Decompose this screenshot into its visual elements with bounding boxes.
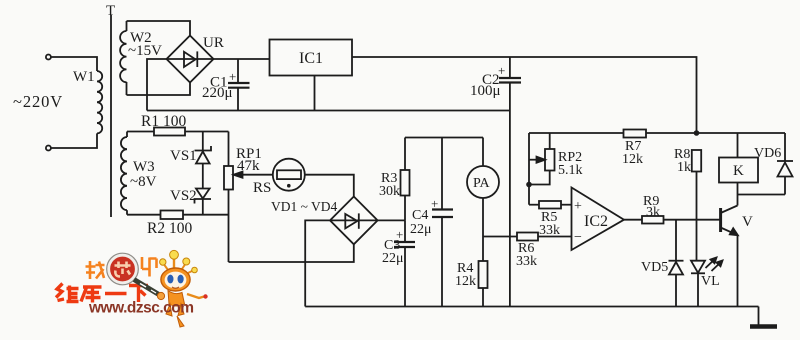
capacitor C1 bbox=[228, 59, 250, 111]
top rail of meter network bbox=[405, 137, 483, 139]
capacitor C4 bbox=[432, 138, 453, 307]
op-amp IC2 bbox=[572, 188, 625, 251]
svg-text:22μ: 22μ bbox=[410, 222, 432, 237]
bridge rectifier UR bbox=[167, 36, 214, 83]
svg-text:+: + bbox=[396, 227, 403, 242]
ground rail under IC1 bbox=[147, 110, 510, 112]
wire R2 to RP1 line bbox=[183, 214, 229, 216]
IC1 ground pin bbox=[314, 76, 316, 111]
resistor R4 bbox=[479, 261, 488, 307]
svg-text:33k: 33k bbox=[516, 254, 537, 269]
resistor R5 bbox=[529, 201, 572, 209]
wire W3 top bbox=[127, 131, 154, 133]
svg-text:VD5: VD5 bbox=[641, 260, 668, 275]
watermark char 片 bbox=[142, 257, 157, 277]
capacitor C2 bbox=[499, 57, 521, 83]
watermark char 下 bbox=[129, 286, 148, 303]
bottom rail bbox=[305, 306, 758, 308]
watermark char 维 bbox=[56, 284, 79, 303]
wire W2 top to bridge bbox=[127, 21, 191, 36]
svg-text:1k: 1k bbox=[677, 160, 691, 175]
watermark magnifier handle bbox=[134, 280, 165, 300]
svg-text:3k: 3k bbox=[646, 205, 660, 220]
zener VS1 bbox=[195, 132, 212, 189]
wire bridge left corner to ground rail bbox=[147, 59, 167, 111]
wire W2 bottom to bridge bbox=[127, 83, 191, 96]
potentiometer RP1 bbox=[224, 132, 273, 263]
resistor R2 bbox=[161, 211, 184, 220]
sensor RS bbox=[273, 159, 305, 191]
wire collector to VD6 bbox=[738, 194, 786, 196]
svg-text:30k: 30k bbox=[379, 184, 400, 199]
terminal bottom bbox=[46, 146, 51, 151]
watermark mascot bbox=[160, 250, 208, 327]
resistor R8 bbox=[692, 150, 701, 261]
svg-text:VD1 ~ VD4: VD1 ~ VD4 bbox=[271, 199, 338, 214]
watermark magnifier with 芯 bbox=[107, 253, 139, 285]
rail R7 to VD6 bbox=[646, 132, 785, 134]
svg-text:+: + bbox=[498, 63, 505, 78]
svg-text:12k: 12k bbox=[622, 152, 643, 167]
potentiometer RP2 bbox=[529, 133, 555, 185]
svg-text:+: + bbox=[229, 69, 236, 84]
svg-text:R1 100: R1 100 bbox=[141, 113, 186, 130]
svg-text:C4: C4 bbox=[412, 208, 428, 223]
svg-text:VS1: VS1 bbox=[170, 148, 197, 164]
resistor R1 bbox=[154, 128, 185, 136]
svg-text:−: − bbox=[574, 230, 582, 245]
svg-text:IC2: IC2 bbox=[584, 213, 608, 230]
supply rail to comparator bbox=[529, 132, 624, 134]
svg-text:~15V: ~15V bbox=[128, 43, 162, 59]
meter PA bbox=[467, 138, 499, 262]
ground bus from C2 down to bottom rail bbox=[509, 83, 511, 307]
svg-text:12k: 12k bbox=[455, 274, 476, 289]
svg-text:R2 100: R2 100 bbox=[147, 220, 192, 237]
svg-text:RS: RS bbox=[253, 180, 271, 196]
svg-text:47k: 47k bbox=[237, 158, 260, 174]
wire VD bridge bottom to RP1 bottom bbox=[229, 244, 354, 262]
resistor R6 and wire to inverting input bbox=[483, 233, 572, 241]
diode VD6 bbox=[777, 133, 793, 195]
zener VS2 bbox=[195, 189, 212, 215]
svg-text:VS2: VS2 bbox=[170, 188, 197, 204]
svg-text:22μ: 22μ bbox=[382, 251, 404, 266]
svg-text:+: + bbox=[431, 196, 438, 211]
V+ rail from IC1 output bbox=[352, 57, 697, 133]
resistor R7 bbox=[624, 130, 647, 138]
node at R7/R8 junction bbox=[694, 130, 700, 136]
capacitor C3 bbox=[394, 220, 415, 306]
svg-text:W3: W3 bbox=[133, 159, 155, 175]
svg-text:100μ: 100μ bbox=[470, 83, 501, 99]
svg-text:33k: 33k bbox=[539, 223, 560, 238]
winding W1 (primary) bbox=[51, 57, 102, 148]
svg-text:UR: UR bbox=[203, 35, 224, 51]
svg-text:~220V: ~220V bbox=[13, 92, 63, 111]
transformer T core bbox=[110, 15, 112, 217]
bridge VD1~VD4 bbox=[330, 197, 378, 245]
wire R1 to RP1 line bbox=[185, 131, 229, 133]
winding W3 (secondary ~8V) bbox=[121, 132, 127, 215]
wire bridge right corner to IC1 bbox=[214, 58, 270, 60]
svg-text:IC1: IC1 bbox=[299, 50, 323, 67]
watermark char 一 bbox=[105, 292, 127, 296]
diode VD5 bbox=[669, 220, 684, 307]
svg-text:V: V bbox=[742, 214, 753, 230]
wire VD bridge right to R3/C3 node bbox=[378, 219, 405, 221]
svg-text:VD6: VD6 bbox=[754, 146, 781, 161]
ground bbox=[750, 307, 777, 327]
svg-text:~8V: ~8V bbox=[130, 174, 157, 190]
terminal top bbox=[46, 55, 51, 60]
watermark dzsc logo bbox=[56, 250, 208, 327]
svg-text:www.dzsc.com: www.dzsc.com bbox=[88, 300, 194, 317]
svg-text:W1: W1 bbox=[73, 69, 95, 85]
svg-text:T: T bbox=[106, 3, 115, 19]
svg-text:K: K bbox=[733, 163, 744, 179]
relay K bbox=[719, 133, 758, 195]
resistor R3 bbox=[401, 138, 410, 221]
svg-text:VL: VL bbox=[701, 274, 720, 289]
svg-text:PA: PA bbox=[473, 176, 491, 191]
svg-text:5.1k: 5.1k bbox=[558, 163, 583, 178]
IC1 box bbox=[270, 40, 353, 76]
wire RS to VD bridge bbox=[305, 175, 354, 197]
resistor R9 and output wire bbox=[624, 216, 720, 224]
watermark char 找 bbox=[86, 261, 105, 279]
watermark char 库 bbox=[81, 287, 102, 303]
wire W3 bottom bbox=[127, 214, 161, 216]
wire VD bridge left to bottom rail bbox=[305, 220, 330, 306]
svg-text:+: + bbox=[574, 199, 582, 214]
LED VL bbox=[691, 258, 723, 307]
RP2 branch line bbox=[526, 133, 532, 205]
svg-text:220μ: 220μ bbox=[202, 85, 233, 101]
transistor V bbox=[721, 195, 738, 307]
winding W2 (secondary ~15V) bbox=[120, 21, 126, 95]
